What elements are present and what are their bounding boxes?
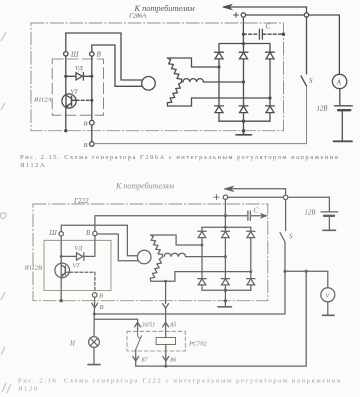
stator winding phase 3 wire: [151, 272, 251, 282]
junction dot capacitor tap: [242, 33, 245, 36]
junction dot tap: [164, 280, 167, 283]
rectifier top rail: [219, 43, 270, 45]
svg-text:А: А: [336, 79, 342, 86]
stator winding phase 2 coil: [164, 253, 186, 257]
svg-text:Я112А: Я112А: [33, 97, 52, 104]
arrowhead to consumers: [223, 4, 233, 10]
diode VD5 (lower middle): [239, 82, 248, 121]
arrowhead up 85: [163, 322, 169, 327]
wire: arrow line to consumers: [226, 189, 286, 196]
junction dot phase 3: [249, 270, 252, 273]
arrow: capacitor to frame: [260, 213, 267, 218]
terminal В: [93, 231, 97, 235]
diode VD1 (upper left): [198, 227, 206, 245]
plus sign: [214, 195, 219, 200]
stator winding phase 1 wire: [151, 235, 203, 245]
wire: terminal Sh to field winding: [61, 225, 137, 256]
wire: phase 3 tap to relay circuit: [165, 281, 167, 303]
wire: bus to switch: [94, 271, 285, 314]
wire: transistor base dashed to V line: [76, 99, 92, 101]
svg-text:VТ: VТ: [73, 263, 81, 270]
wire: rail to ground: [224, 290, 226, 307]
svg-text:12В: 12В: [317, 106, 328, 113]
arrowhead down 87: [133, 356, 139, 361]
ground (generator case): [218, 306, 232, 308]
wire: Sh line down through regulator: [65, 56, 67, 94]
junction dot diode anode: [64, 75, 67, 78]
stator winding phase 1 zigzag: [168, 58, 182, 83]
svg-text:VД: VД: [75, 245, 84, 252]
svg-text:Я112В: Я112В: [24, 265, 43, 272]
terminal Ш (field): [59, 232, 63, 236]
junction dot diode cathode: [90, 75, 93, 78]
wire: + terminal to battery corner: [228, 196, 330, 198]
diode VD5 (lower middle): [221, 257, 229, 291]
voltmeter V: [321, 288, 335, 302]
svg-text:С: С: [266, 23, 271, 31]
capacitor C plates: [259, 29, 262, 39]
wire: coil feeds: [165, 331, 167, 351]
junction dot + feed on rail: [242, 42, 245, 45]
wire: terminal 86 down: [165, 351, 167, 366]
rotor field winding: [137, 250, 151, 264]
rotor field winding: [142, 77, 156, 91]
junction dot bottom of switch branch: [305, 270, 308, 273]
capacitor C plates: [248, 211, 251, 220]
wire: voltmeter to ground: [327, 302, 329, 316]
diode VD2 (upper middle): [239, 44, 248, 82]
junction dot 86 to bottom wire: [164, 365, 167, 368]
ground (voltmeter): [323, 314, 335, 316]
svg-text:В: В: [86, 229, 91, 237]
stator winding phase 2 wire: [186, 256, 226, 258]
regulator Я112А box (dashed): [52, 59, 103, 115]
margin pencil marks: [1, 32, 12, 393]
svg-text:В: В: [99, 293, 103, 300]
svg-text:VТ: VТ: [71, 89, 79, 96]
wire: voltmeter feed: [327, 271, 329, 288]
wire: terminal Sh to field winding: [66, 33, 142, 80]
stator winding phase 2 wire: [203, 81, 243, 83]
relay contact: [136, 331, 142, 349]
arrowhead to consumers: [224, 186, 234, 192]
svg-text:В: В: [100, 304, 104, 311]
ground (lamp): [88, 364, 100, 366]
svg-text:РС702: РС702: [188, 341, 208, 348]
terminal В (regulator bottom): [92, 293, 97, 298]
rectifier top rail: [202, 226, 251, 228]
generator frame boundary (dash-dot box) G222: [33, 204, 268, 301]
svg-text:S: S: [289, 233, 293, 241]
svg-text:Я112А: Я112А: [20, 162, 46, 169]
wire: ammeter to battery: [339, 89, 341, 106]
wire: terminal V up to + wire: [95, 216, 226, 232]
junction dot switch to bus: [283, 270, 286, 273]
wire: contact to 87: [135, 349, 137, 351]
svg-text:В: В: [84, 142, 88, 149]
wire: terminal V to field winding: [97, 234, 138, 261]
junction dot + feed on rail: [224, 226, 227, 229]
diode VD2 (upper middle): [221, 227, 229, 256]
junction dot phase 2: [242, 80, 245, 83]
junction dot capacitor to frame: [282, 33, 285, 36]
capacitor C leads (dashed): [243, 33, 283, 35]
battery 12В: [321, 211, 338, 213]
svg-text:87: 87: [142, 358, 149, 364]
junction dot phase 3: [268, 96, 271, 99]
svg-text:S: S: [309, 77, 313, 85]
terminal Ш (field): [64, 52, 68, 56]
diode VD4 (lower left): [215, 67, 224, 121]
transistor VT: [55, 263, 70, 279]
junction dot bottom rail center: [224, 289, 227, 292]
svg-text:К потребителям: К потребителям: [134, 4, 196, 13]
stator winding phase 3 wire: [168, 98, 271, 106]
svg-text:30/51: 30/51: [141, 323, 156, 329]
arrowhead up 30/51: [135, 322, 141, 327]
junction dot bottom rail center: [242, 120, 245, 123]
wire: + terminal to right rail: [246, 14, 340, 16]
lamp H: [89, 337, 100, 348]
junction dot phase 2: [224, 255, 227, 258]
wire: bottom return: [136, 271, 307, 366]
ground (battery): [334, 140, 353, 142]
stator winding phase 3 zigzag: [167, 83, 181, 107]
svg-text:12В: 12В: [305, 210, 316, 217]
diode VD6 (lower right): [247, 272, 255, 291]
wire: lamp to ground: [93, 347, 95, 364]
svg-text:С: С: [254, 207, 259, 215]
wire: rail to frame ground: [243, 121, 245, 131]
svg-text:85: 85: [170, 323, 176, 329]
rectifier bottom rail: [202, 289, 251, 291]
wire: bus to relay 30/51: [94, 319, 137, 331]
diode VD3 (upper right): [266, 44, 275, 98]
svg-text:VД: VД: [75, 65, 84, 72]
junction dot on frame: [242, 129, 245, 132]
terminal + (output): [223, 195, 227, 199]
terminal В (lower, outside frame): [90, 142, 95, 147]
svg-text:К потребителям: К потребителям: [115, 182, 174, 191]
wire: lamp feed: [93, 319, 95, 336]
junction dot phase 1: [217, 65, 220, 68]
switch S: [280, 200, 286, 272]
svg-text:В: В: [97, 51, 102, 59]
arrowhead down 86: [163, 356, 169, 361]
stator winding phase 3 zigzag: [150, 258, 162, 282]
junction dot on frame: [224, 299, 227, 302]
capacitor C leads: [225, 215, 264, 217]
stator winding phase 1 zigzag: [151, 235, 163, 258]
relay РС702 box: [127, 331, 185, 351]
wire: terminal 87 down: [135, 351, 137, 366]
node: junction circle on + wire: [304, 13, 308, 17]
node: junction circle on + wire: [283, 195, 287, 199]
diode VD6 (lower right): [266, 98, 275, 121]
junction dot phase 1: [201, 244, 204, 247]
battery 12В: [335, 105, 353, 107]
terminal + (output): [241, 13, 245, 17]
wire: transistor emitter to frame: [65, 108, 67, 131]
diode VD1 (upper left): [215, 44, 224, 67]
wire: terminal V to field winding: [92, 45, 142, 86]
junction dot emitter to frame: [64, 129, 67, 132]
svg-text:Г222: Г222: [73, 197, 89, 205]
wire: Sh line down through regulator: [60, 236, 62, 263]
svg-text:В: В: [84, 121, 88, 128]
wire: transistor emitter to frame: [60, 278, 62, 301]
wire: between В terminals across frame: [91, 125, 93, 142]
wire: + terminal down to rectifier: [224, 199, 226, 227]
relay coil: [156, 338, 175, 345]
ground (generator case): [236, 131, 252, 135]
regulator Я112В box: [44, 240, 111, 290]
wire: В terminal down across frame: [93, 297, 96, 319]
arrow mark on В wire: [92, 303, 98, 308]
diode VD3 (upper right): [247, 227, 255, 271]
generator frame boundary (dash-dot box) G286A: [31, 23, 284, 131]
wire: V line down to terminal В: [91, 56, 93, 120]
junction dot base to V line: [90, 99, 93, 102]
junction dot capacitor tap: [224, 214, 227, 217]
svg-text:Ш: Ш: [49, 229, 58, 237]
arrow mark on tap wire: [163, 304, 169, 309]
plus sign: [234, 13, 239, 18]
transistor VT: [62, 94, 76, 108]
terminal В (output sense): [90, 52, 94, 56]
diode VD in regulator: [66, 73, 92, 81]
svg-text:Г286А: Г286А: [128, 12, 146, 19]
wire: battery to ground: [341, 110, 343, 141]
ammeter A: [332, 74, 346, 88]
wire: battery to ground: [328, 216, 330, 231]
diode VD4 (lower left): [198, 245, 206, 290]
wire: V line down to diode cathode: [94, 236, 96, 257]
wire: + wire to battery: [328, 197, 330, 212]
wire: switch junction to voltmeter: [285, 270, 328, 272]
wire: right rail down to ammeter: [338, 15, 340, 74]
junction dot diode anode: [60, 255, 63, 258]
svg-text:Рис. 2.15. Схема генератора Г2: Рис. 2.15. Схема генератора Г286А с инте…: [20, 154, 339, 161]
svg-text:Я120: Я120: [18, 386, 39, 393]
diode VD in regulator: [61, 253, 94, 261]
stator winding phase 2 coil: [183, 79, 203, 82]
svg-text:86: 86: [170, 358, 176, 364]
svg-text:Ш: Ш: [70, 50, 79, 58]
wire: В terminal to switch S bottom: [94, 86, 306, 144]
terminal В (upper, inside frame): [90, 120, 95, 125]
svg-text:Рис. 2.16. Схема генератора Г2: Рис. 2.16. Схема генератора Г222 с интег…: [18, 378, 342, 385]
junction dot lamp bus left: [93, 313, 96, 316]
stator winding phase 1 wire: [168, 58, 220, 67]
wire: + terminal down to rectifier top rail: [242, 17, 244, 43]
wire: transistor base dashed to В: [70, 272, 95, 290]
ground (battery): [323, 229, 336, 231]
wire: relay terminal 85 feed: [165, 308, 167, 331]
junction dot emitter to frame: [60, 299, 63, 302]
wire: arrow line to consumers: [224, 7, 307, 15]
rectifier bottom rail: [219, 120, 270, 122]
switch S: [301, 17, 307, 86]
